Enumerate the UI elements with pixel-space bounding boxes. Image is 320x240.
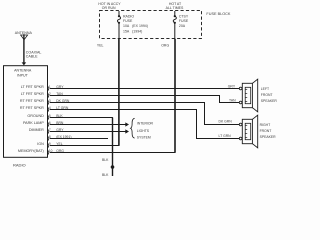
svg-text:OR RUN: OR RUN <box>102 6 116 10</box>
svg-text:INTERIOR: INTERIOR <box>137 122 154 126</box>
svg-text:RADIO: RADIO <box>13 162 26 167</box>
svg-text:RT FRT SPKR: RT FRT SPKR <box>20 99 44 103</box>
svg-text:SYSTEM: SYSTEM <box>137 135 151 139</box>
svg-text:RIGHT: RIGHT <box>260 123 271 127</box>
svg-text:INPUT: INPUT <box>17 74 29 78</box>
svg-text:LT FRT SPKR: LT FRT SPKR <box>21 92 44 96</box>
svg-text:DK GRN: DK GRN <box>219 120 233 124</box>
svg-text:FRONT: FRONT <box>260 129 272 133</box>
svg-text:ORG: ORG <box>161 44 169 48</box>
svg-text:FUSE BLOCK: FUSE BLOCK <box>206 12 231 16</box>
svg-text:SPEAKER: SPEAKER <box>260 135 277 139</box>
svg-text:BLK: BLK <box>102 158 109 162</box>
svg-text:RT FRT SPKR: RT FRT SPKR <box>20 106 44 110</box>
svg-text:SPEAKER: SPEAKER <box>261 99 278 103</box>
svg-text:BLK: BLK <box>102 173 109 176</box>
svg-text:LT FRT SPKR: LT FRT SPKR <box>21 85 44 89</box>
svg-text:GROUND: GROUND <box>27 114 44 118</box>
svg-text:TAN: TAN <box>229 99 236 103</box>
svg-text:10A (EX 1994): 10A (EX 1994) <box>123 24 148 28</box>
svg-text:FUSE: FUSE <box>179 19 189 23</box>
svg-text:IGN: IGN <box>37 142 44 146</box>
svg-text:PARK LAMP: PARK LAMP <box>23 121 44 125</box>
svg-text:DIMMER: DIMMER <box>29 128 44 132</box>
svg-text:YEL: YEL <box>97 44 104 48</box>
svg-text:15A (1994): 15A (1994) <box>123 29 142 33</box>
svg-text:LIGHTS: LIGHTS <box>137 129 150 133</box>
svg-text:FRONT: FRONT <box>261 93 273 97</box>
svg-text:FUSE: FUSE <box>123 19 133 23</box>
svg-text:LT GRN: LT GRN <box>219 134 232 138</box>
svg-text:ALL TIMES: ALL TIMES <box>166 6 184 10</box>
svg-text:CTSY: CTSY <box>179 14 189 18</box>
svg-text:RADIO: RADIO <box>123 14 134 18</box>
svg-text:LEFT: LEFT <box>261 87 269 91</box>
svg-text:GRY: GRY <box>228 85 236 89</box>
svg-text:20A: 20A <box>179 24 186 28</box>
svg-text:ANTENNA: ANTENNA <box>14 69 32 73</box>
svg-text:MEMORY(BAT): MEMORY(BAT) <box>18 149 44 153</box>
svg-text:CABLE: CABLE <box>26 55 38 59</box>
